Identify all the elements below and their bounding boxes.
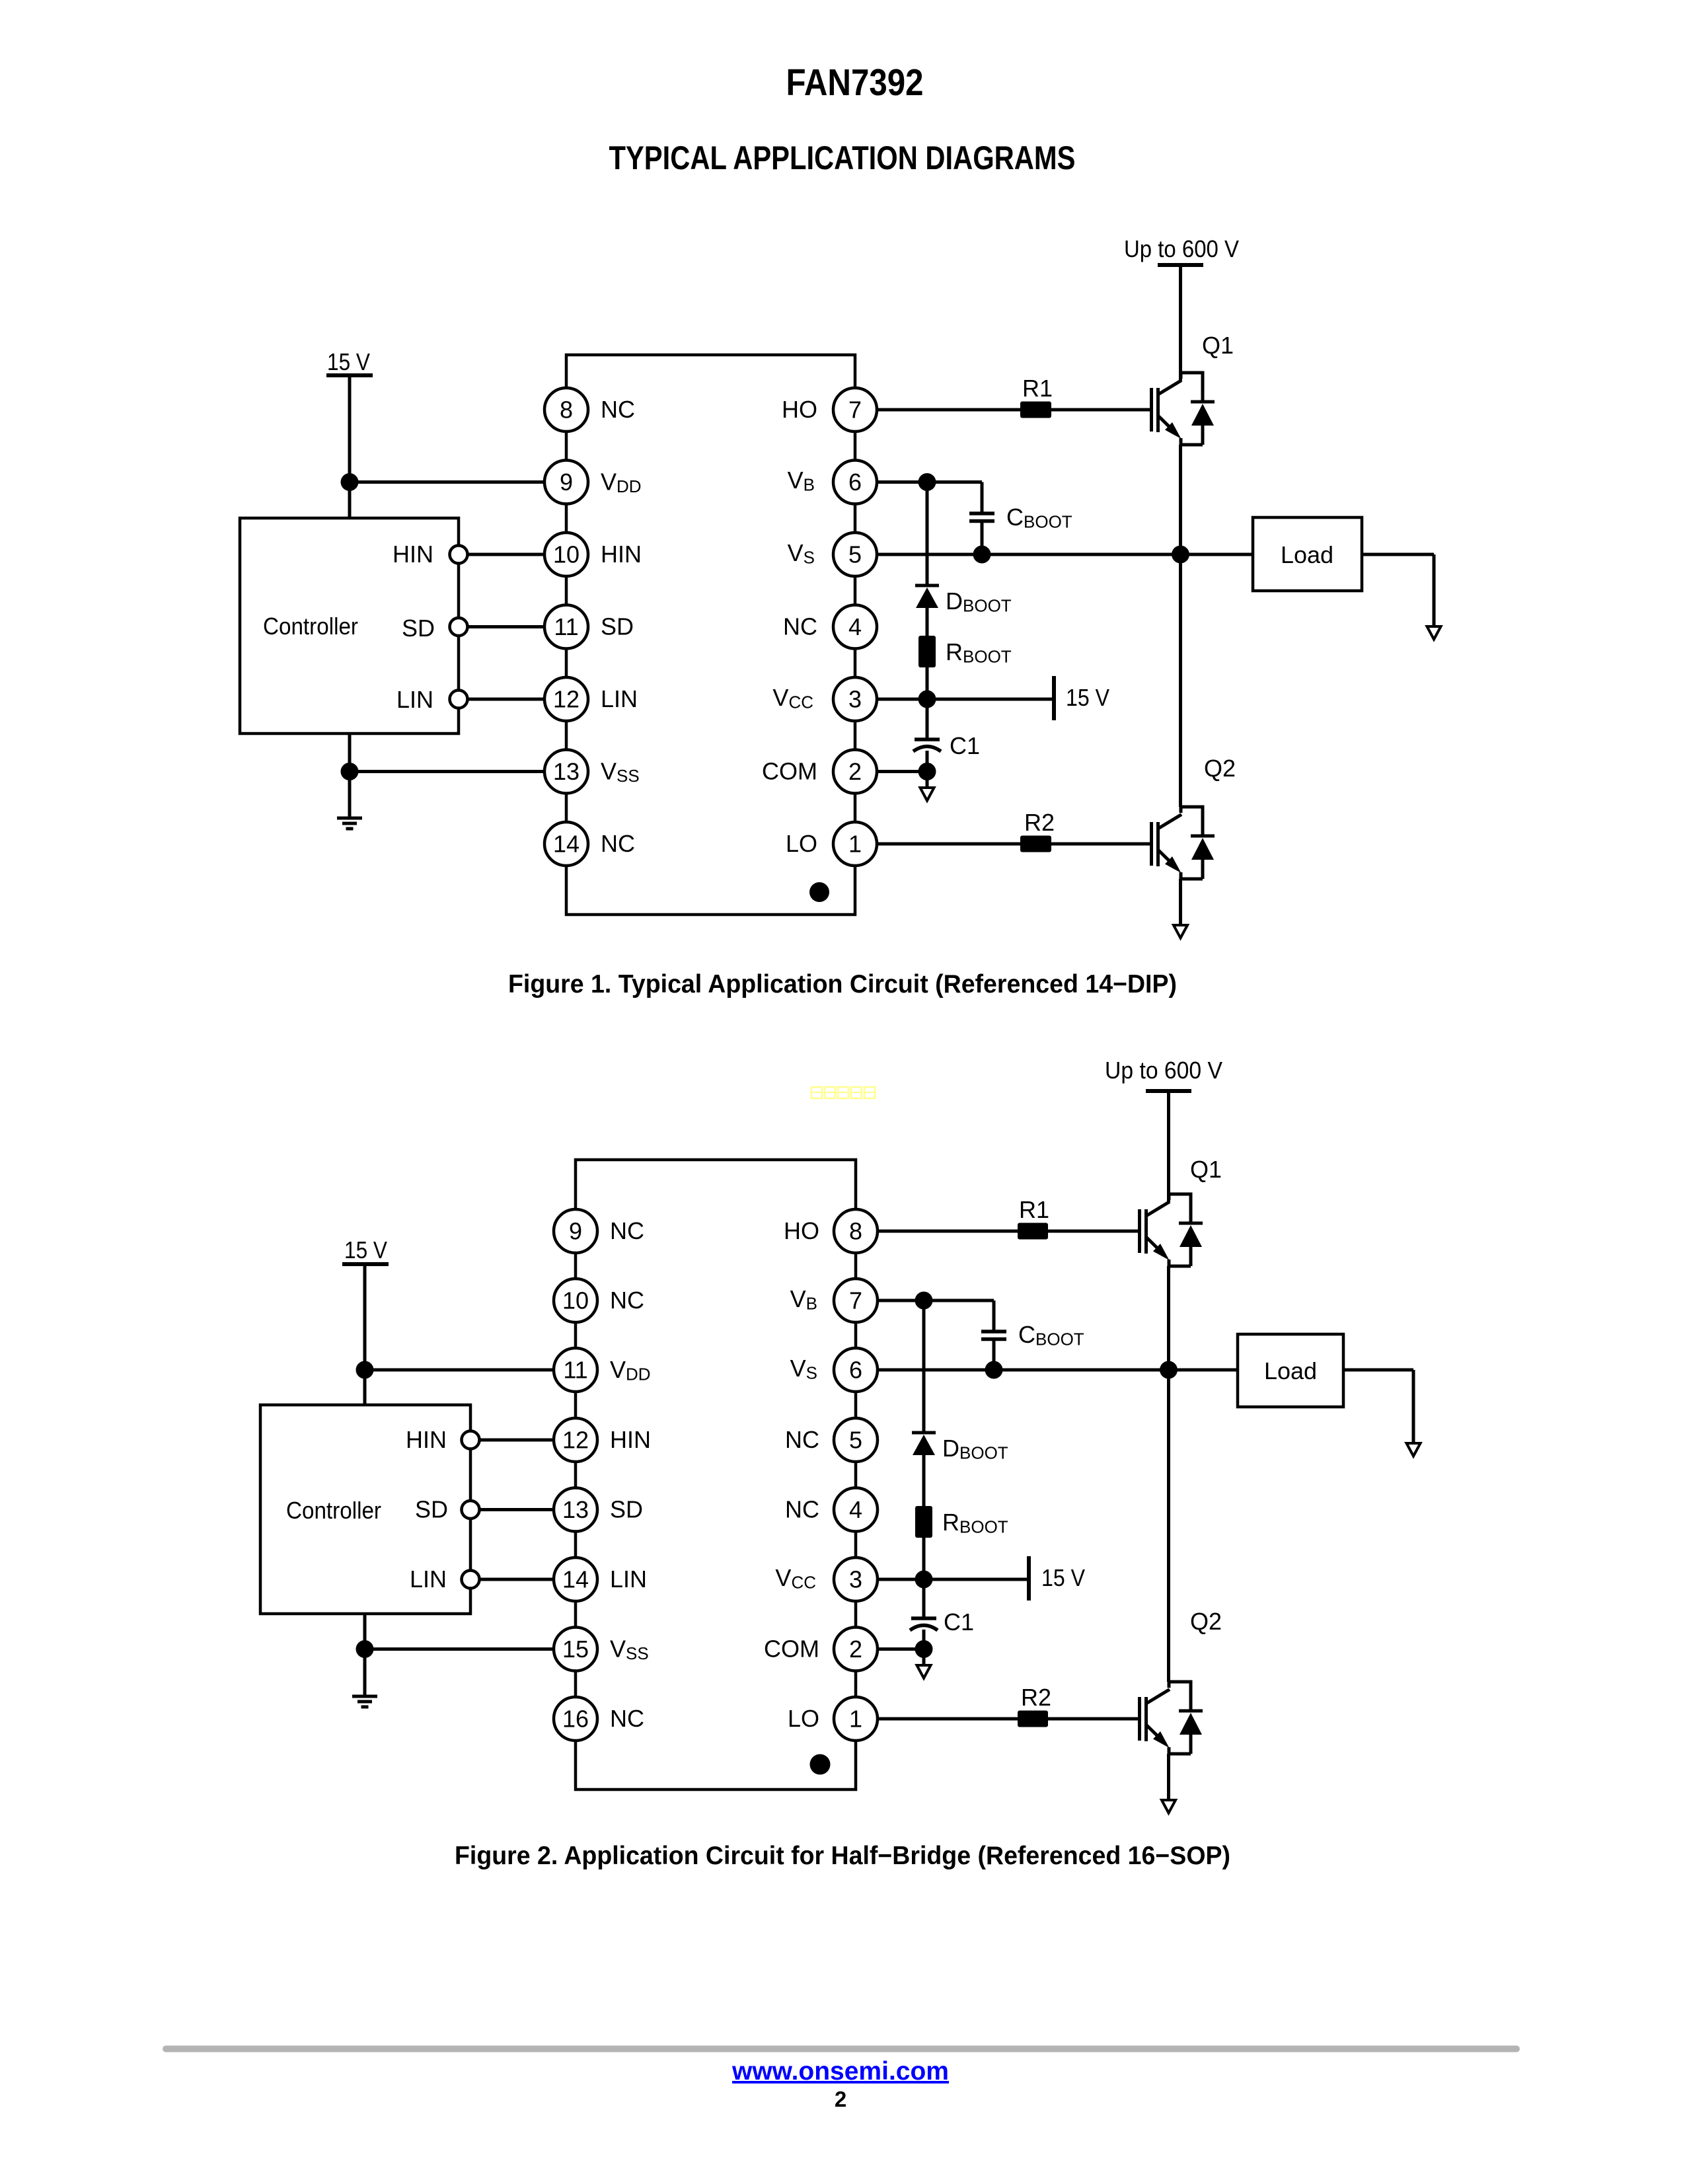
svg-text:CBOOT: CBOOT — [1018, 1321, 1084, 1349]
svg-text:10: 10 — [562, 1287, 589, 1314]
svg-text:VSS: VSS — [601, 758, 640, 786]
wire VDD to pin 11 fig2 — [365, 1369, 554, 1372]
load box fig2 — [1238, 1334, 1343, 1407]
IC U1 FAN7392 outline (14-DIP) — [566, 355, 855, 915]
svg-text:1: 1 — [848, 831, 862, 858]
svg-text:R2: R2 — [1024, 809, 1055, 836]
wire VB to junction fig2 — [878, 1299, 924, 1302]
wire load to output fig1 — [1362, 553, 1434, 556]
svg-text:R1: R1 — [1022, 375, 1053, 402]
svg-text:5: 5 — [849, 1427, 862, 1454]
pin 9 fig2 — [554, 1209, 597, 1253]
pin 13 fig1 — [544, 750, 588, 794]
wire HO to R1 fig2 — [878, 1230, 1018, 1233]
wire Q2 emitter down fig1 — [1179, 879, 1182, 925]
wire VCC to 15V fig1 — [927, 698, 1054, 701]
capacitor C1 fig1 — [913, 739, 941, 751]
controller HIN bubble fig1 — [450, 546, 468, 564]
resistor R1 fig1 — [1020, 402, 1051, 418]
svg-text:8: 8 — [560, 396, 573, 424]
HV rail bar fig1 — [1158, 263, 1203, 267]
node VB junction fig1 — [918, 473, 936, 491]
resistor R1 fig2 — [1018, 1223, 1048, 1240]
ground symbol fig1 — [337, 818, 362, 829]
svg-text:SD: SD — [415, 1496, 448, 1523]
resistor RBOOT fig1 — [918, 636, 936, 667]
wire Q1 emitter to Q2 collector fig1 — [1179, 445, 1182, 807]
svg-text:NC: NC — [785, 1496, 819, 1523]
svg-text:Load: Load — [1281, 541, 1333, 568]
controller HIN bubble fig2 — [462, 1431, 480, 1449]
wire VCC to junction fig2 — [878, 1578, 924, 1581]
resistor R2 fig1 — [1020, 836, 1051, 852]
wire VS line fig1 — [877, 553, 1253, 556]
svg-text:12: 12 — [553, 686, 580, 713]
svg-text:FAN7392: FAN7392 — [786, 61, 924, 104]
svg-text:VSS: VSS — [610, 1636, 649, 1664]
wire HV rail to Q1 collector fig2 — [1167, 1091, 1170, 1202]
transistor Q1 fig2 (IGBT with diode) — [1140, 1193, 1203, 1267]
svg-text:2: 2 — [835, 2087, 846, 2111]
svg-text:HO: HO — [782, 396, 817, 423]
wire R1 to Q1 gate fig1 — [1051, 408, 1151, 412]
wire VB to junction fig1 — [877, 480, 927, 484]
svg-text:LIN: LIN — [410, 1565, 447, 1593]
diode DBOOT fig1 — [915, 585, 939, 636]
node VB junction fig2 — [915, 1292, 933, 1310]
svg-text:15 V: 15 V — [327, 348, 370, 375]
svg-text:13: 13 — [553, 758, 580, 785]
svg-text:16: 16 — [562, 1706, 589, 1733]
svg-text:4: 4 — [848, 613, 862, 640]
pin 1 marker dot fig1 — [809, 882, 829, 902]
svg-text:Q2: Q2 — [1190, 1608, 1222, 1635]
svg-text:NC: NC — [610, 1287, 644, 1314]
svg-text:DBOOT: DBOOT — [942, 1435, 1008, 1463]
wire LO to R2 fig2 — [878, 1717, 1018, 1721]
pin 4 fig2 — [834, 1488, 878, 1532]
pin 9 fig1 — [544, 461, 588, 504]
pin 8 fig1 — [544, 388, 588, 432]
svg-text:Figure 2. Application Circuit: Figure 2. Application Circuit for Half−B… — [455, 1842, 1230, 1870]
svg-text:Up to 600 V: Up to 600 V — [1105, 1057, 1222, 1084]
pin 1 fig1 — [833, 822, 877, 866]
wire VCC junction down to C1 fig2 — [922, 1579, 926, 1618]
svg-text:HIN: HIN — [393, 541, 433, 568]
wire CBOOT top lead fig1 — [981, 482, 984, 514]
svg-text:CBOOT: CBOOT — [1006, 504, 1072, 532]
transistor Q1 fig1 (IGBT with diode) — [1152, 371, 1215, 445]
wire C1 to COM junction fig1 — [926, 751, 929, 772]
wire VSS to pin 13 fig1 — [350, 770, 544, 773]
svg-text:2: 2 — [849, 1636, 862, 1663]
controller LIN bubble fig1 — [450, 691, 468, 708]
svg-text:Figure 1. Typical Application: Figure 1. Typical Application Circuit (R… — [508, 970, 1177, 998]
wire R2 to Q2 gate fig1 — [1051, 843, 1151, 846]
ground symbol fig2 — [352, 1696, 377, 1707]
pin 15 fig2 — [554, 1628, 597, 1671]
svg-text:10: 10 — [553, 541, 580, 568]
svg-text:RBOOT: RBOOT — [946, 638, 1012, 667]
wire VB junction down to DBOOT fig2 — [922, 1300, 926, 1433]
wire VCC to junction fig1 — [877, 698, 927, 701]
wire C1 to COM junction fig2 — [922, 1630, 926, 1649]
svg-text:Up to 600 V: Up to 600 V — [1124, 235, 1239, 262]
svg-text:RBOOT: RBOOT — [942, 1509, 1008, 1537]
svg-text:15 V: 15 V — [344, 1236, 387, 1263]
svg-text:NC: NC — [610, 1705, 644, 1732]
pin 10 fig2 — [554, 1279, 597, 1322]
wire RBOOT to VCC junction fig1 — [926, 667, 929, 699]
svg-text:C1: C1 — [944, 1608, 974, 1636]
wire VS line fig2 — [878, 1369, 1238, 1372]
wire VDD supply down fig2 — [363, 1264, 367, 1405]
node VSS junction fig1 — [341, 763, 359, 780]
wire VDD supply down fig1 — [348, 375, 352, 518]
svg-text:HIN: HIN — [406, 1426, 447, 1453]
svg-text:VS: VS — [788, 539, 815, 568]
pin 6 fig1 — [833, 461, 877, 504]
svg-text:COM: COM — [764, 1636, 819, 1663]
node VCC junction fig1 — [918, 691, 936, 708]
svg-text:5: 5 — [848, 541, 862, 568]
wire SD fig1 — [468, 625, 545, 628]
svg-text:C1: C1 — [950, 732, 980, 759]
svg-text:SD: SD — [402, 615, 435, 642]
pin 3 fig1 — [833, 677, 877, 721]
pin 14 fig2 — [554, 1558, 597, 1601]
pin 5 fig1 — [833, 533, 877, 576]
node CBOOT-VS junction fig1 — [973, 546, 991, 564]
svg-text:3: 3 — [849, 1566, 862, 1593]
svg-text:HIN: HIN — [610, 1426, 651, 1453]
wire controller to ground fig2 — [363, 1614, 367, 1696]
pin 13 fig2 — [554, 1488, 597, 1532]
svg-text:VDD: VDD — [601, 469, 642, 497]
svg-text:NC: NC — [610, 1217, 644, 1244]
svg-text:VS: VS — [790, 1355, 817, 1383]
pin 12 fig2 — [554, 1418, 597, 1462]
wire Q2 emitter down fig2 — [1167, 1754, 1170, 1800]
wire SD fig2 — [480, 1508, 554, 1511]
pin 7 fig2 — [834, 1279, 878, 1322]
node COM junction fig2 — [915, 1640, 933, 1658]
COM ground arrow fig1 — [920, 788, 934, 801]
wire HIN fig1 — [468, 553, 545, 556]
controller LIN bubble fig2 — [462, 1571, 480, 1589]
svg-text:LO: LO — [786, 830, 817, 857]
controller SD bubble fig2 — [462, 1501, 480, 1519]
pin 10 fig1 — [544, 533, 588, 576]
svg-text:Q1: Q1 — [1202, 332, 1234, 359]
svg-text:SD: SD — [610, 1496, 643, 1523]
pin 5 fig2 — [834, 1418, 878, 1462]
output arrow fig1 — [1427, 626, 1441, 640]
load box fig1 — [1253, 517, 1362, 591]
svg-text:3: 3 — [848, 686, 862, 713]
Q2 ground arrow fig2 — [1162, 1800, 1176, 1813]
node VS-rail junction fig2 — [1160, 1361, 1178, 1379]
svg-text:6: 6 — [848, 469, 862, 496]
wire DBOOT to RBOOT fig1 — [926, 608, 929, 636]
svg-text:12: 12 — [562, 1427, 589, 1454]
node VDD junction fig1 — [341, 473, 359, 491]
wire R1 to Q1 gate fig2 — [1048, 1230, 1139, 1233]
node VS-rail junction fig1 — [1172, 546, 1189, 564]
transistor Q2 fig2 (IGBT with diode) — [1140, 1680, 1203, 1754]
pin 12 fig1 — [544, 677, 588, 721]
COM ground arrow fig2 — [917, 1665, 931, 1678]
svg-text:13: 13 — [562, 1496, 589, 1523]
wire VCC junction down to C1 fig1 — [926, 699, 929, 741]
15V supply bar fig2 — [1027, 1556, 1031, 1600]
capacitor CBOOT fig1 — [969, 513, 994, 521]
svg-text:Controller: Controller — [286, 1497, 381, 1524]
transistor Q2 fig1 (IGBT with diode) — [1152, 806, 1215, 880]
svg-text:1: 1 — [849, 1706, 862, 1733]
pin 11 fig1 — [544, 605, 588, 649]
svg-text:Load: Load — [1264, 1357, 1317, 1384]
capacitor C1 fig2 — [910, 1618, 938, 1630]
svg-text:HIN: HIN — [601, 541, 642, 568]
svg-text:14: 14 — [553, 831, 580, 858]
wire COM junction down fig1 — [926, 772, 929, 788]
pin 1 fig2 — [834, 1697, 878, 1741]
svg-text:9: 9 — [569, 1218, 582, 1245]
wire LIN fig2 — [480, 1578, 554, 1581]
watermark — [811, 1087, 875, 1098]
wire COM junction down fig2 — [922, 1649, 926, 1666]
wire load output down fig1 — [1433, 554, 1436, 626]
svg-text:VB: VB — [788, 467, 815, 495]
svg-text:www.onsemi.com: www.onsemi.com — [731, 2057, 949, 2086]
pin 3 fig2 — [834, 1558, 878, 1601]
wire VSS to pin 15 fig2 — [365, 1647, 554, 1651]
node VDD junction fig2 — [356, 1361, 374, 1379]
node CBOOT-VS junction fig2 — [985, 1361, 1003, 1379]
wire CBOOT bottom lead fig1 — [981, 521, 984, 555]
pin 8 fig2 — [834, 1209, 878, 1253]
wire RBOOT to VCC junction fig2 — [922, 1538, 926, 1579]
output arrow fig2 — [1407, 1443, 1421, 1456]
svg-text:LIN: LIN — [610, 1565, 647, 1593]
svg-text:4: 4 — [849, 1496, 862, 1523]
svg-text:6: 6 — [849, 1357, 862, 1384]
15V supply bar fig1 — [1052, 676, 1056, 720]
wire HIN fig2 — [480, 1439, 554, 1442]
svg-text:11: 11 — [563, 1357, 587, 1384]
svg-text:HO: HO — [784, 1217, 819, 1244]
wire controller to ground fig1 — [348, 734, 352, 817]
pin 6 fig2 — [834, 1348, 878, 1392]
VDD supply bar fig2 — [342, 1262, 389, 1266]
wire VB junction down to DBOOT fig1 — [926, 482, 929, 586]
svg-text:LIN: LIN — [396, 686, 433, 713]
wire load output down fig2 — [1412, 1370, 1415, 1443]
controller box fig1 — [240, 518, 459, 734]
IC U2 FAN7392 outline (16-SOP) — [576, 1160, 856, 1789]
wire COM to junction fig2 — [878, 1647, 924, 1651]
node VSS junction fig2 — [356, 1640, 374, 1658]
svg-text:LO: LO — [788, 1705, 819, 1732]
wire LO to R2 fig1 — [877, 843, 1020, 846]
wire CBOOT top lead fig2 — [992, 1300, 996, 1332]
svg-text:VCC: VCC — [772, 684, 813, 712]
pin 4 fig1 — [833, 605, 877, 649]
controller SD bubble fig1 — [450, 618, 468, 636]
svg-text:NC: NC — [783, 613, 817, 640]
controller box fig2 — [260, 1405, 470, 1614]
svg-text:SD: SD — [601, 613, 634, 640]
pin 11 fig2 — [554, 1348, 597, 1392]
resistor R2 fig2 — [1018, 1711, 1048, 1727]
footer rule — [166, 2046, 1516, 2052]
svg-text:NC: NC — [601, 830, 635, 857]
wire LIN fig1 — [468, 698, 545, 701]
wire HV rail to Q1 collector fig1 — [1179, 265, 1182, 381]
pin 7 fig1 — [833, 388, 877, 432]
pin 2 fig2 — [834, 1628, 878, 1671]
svg-text:NC: NC — [601, 396, 635, 423]
svg-text:15 V: 15 V — [1066, 684, 1109, 711]
node VCC junction fig2 — [915, 1571, 933, 1589]
svg-text:14: 14 — [562, 1566, 589, 1593]
wire CBOOT bottom lead fig2 — [992, 1339, 996, 1371]
svg-text:11: 11 — [554, 613, 578, 640]
pin 14 fig1 — [544, 822, 588, 866]
svg-text:DBOOT: DBOOT — [946, 587, 1012, 616]
svg-text:2: 2 — [848, 758, 862, 785]
svg-text:15 V: 15 V — [1041, 1564, 1085, 1591]
diode DBOOT fig2 — [912, 1433, 936, 1506]
wire COM to junction fig1 — [877, 770, 927, 773]
pin 1 marker dot fig2 — [810, 1754, 831, 1775]
svg-text:VDD: VDD — [610, 1356, 651, 1384]
resistor RBOOT fig2 — [915, 1506, 932, 1538]
wire Q1 emitter to Q2 collector fig2 — [1167, 1266, 1170, 1682]
Q2 ground arrow fig1 — [1174, 925, 1187, 938]
svg-text:9: 9 — [560, 469, 573, 496]
svg-text:7: 7 — [849, 1287, 862, 1314]
svg-text:R1: R1 — [1019, 1196, 1049, 1223]
svg-text:VB: VB — [790, 1285, 817, 1314]
svg-text:LIN: LIN — [601, 685, 638, 712]
svg-text:TYPICAL APPLICATION DIAGRAMS: TYPICAL APPLICATION DIAGRAMS — [609, 139, 1076, 176]
svg-text:R2: R2 — [1021, 1684, 1051, 1711]
wire HO to R1 fig1 — [877, 408, 1020, 412]
capacitor CBOOT fig2 — [981, 1332, 1006, 1339]
svg-text:NC: NC — [785, 1426, 819, 1453]
svg-text:8: 8 — [849, 1218, 862, 1245]
svg-text:15: 15 — [562, 1636, 589, 1663]
node COM junction fig1 — [918, 763, 936, 780]
svg-text:Q1: Q1 — [1190, 1156, 1222, 1183]
wire R2 to Q2 gate fig2 — [1048, 1717, 1139, 1721]
svg-text:Controller: Controller — [263, 613, 358, 640]
svg-text:VCC: VCC — [775, 1564, 816, 1593]
pin 16 fig2 — [554, 1697, 597, 1741]
HV rail bar fig2 — [1146, 1089, 1191, 1093]
svg-text:7: 7 — [848, 396, 862, 424]
VDD supply bar fig1 — [326, 373, 373, 377]
wire VB junction to CBOOT fig1 — [927, 480, 982, 484]
svg-text:COM: COM — [762, 758, 817, 785]
wire load to output fig2 — [1343, 1369, 1413, 1372]
wire VCC to 15V fig2 — [924, 1578, 1029, 1581]
svg-text:Q2: Q2 — [1204, 755, 1236, 782]
wire VB junction to CBOOT fig2 — [924, 1299, 994, 1302]
wire VDD to pin 9 fig1 — [350, 480, 544, 484]
pin 2 fig1 — [833, 750, 877, 794]
